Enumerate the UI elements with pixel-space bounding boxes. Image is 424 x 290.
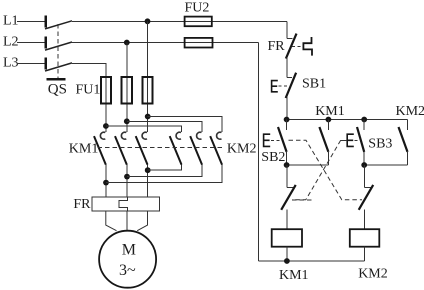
wire joining line SB3/KM2aux (364, 164, 407, 166)
wire L2 bus (72, 42, 259, 44)
pushbutton SB2 blade (278, 127, 287, 152)
wire control phase down (286, 21, 288, 38)
contactor KM1 contact 2 arc (121, 132, 126, 139)
node G junction dot (284, 162, 290, 168)
contact KM2-NC blade (281, 185, 296, 210)
svg-text:KM2: KM2 (358, 267, 388, 282)
wire L1 bus (72, 20, 287, 22)
wire KM2 aux to joining line (407, 152, 409, 165)
node junction L1/FU1 (145, 18, 151, 24)
switch QS pole 3 blade (45, 63, 72, 71)
thermal relay FR heater step divider (119, 197, 128, 211)
svg-text:FR: FR (268, 39, 286, 54)
wire L3 to fuse 1 (72, 63, 106, 132)
contact KM1 aux blade (319, 127, 328, 152)
switch QS pole 3 fixed contact (45, 57, 47, 69)
pushbutton SB2 dashed link (271, 139, 281, 141)
contactor KM1 contact 2 blade (115, 136, 127, 165)
node rail-SB3 junction (361, 117, 367, 123)
switch QS pole 1 blade (45, 21, 72, 29)
svg-text:SB2: SB2 (261, 150, 285, 165)
contactor KM2 contact 3 arc (217, 132, 222, 139)
contact KM1-NC hook (364, 187, 371, 189)
coil KM2 body (350, 229, 380, 247)
node D junction dot (103, 180, 109, 186)
pushbutton SB1 NC hook (287, 76, 292, 78)
node A junction dot (103, 123, 109, 129)
svg-text:FU1: FU1 (76, 82, 101, 97)
wire L3 lead-in (17, 62, 44, 64)
svg-text:KM1: KM1 (69, 142, 99, 157)
contact KM2-NC hook (287, 187, 294, 189)
wire L2 branch down (126, 43, 128, 133)
wire FR to SB1 (286, 58, 288, 78)
contact KM2 aux blade (399, 127, 408, 152)
svg-text:QS: QS (48, 82, 67, 98)
pushbutton SB1 dashed link (279, 85, 289, 87)
wire KM1 contact2 down (126, 165, 128, 197)
node bottom junction dot (284, 258, 290, 264)
svg-text:KM2: KM2 (227, 141, 257, 156)
fuse FU1b body (122, 77, 132, 103)
contactor KM2 contact 2 arc (197, 132, 202, 139)
node rail-KM1aux junction (326, 117, 332, 123)
wire control bottom rail (259, 260, 365, 262)
node junction L2/FU1 (124, 40, 130, 46)
wire joining line SB2/KM1aux (287, 164, 329, 166)
fuse FU1a body (101, 77, 111, 103)
wire motor lead V (126, 211, 128, 231)
interlock dashed SB3 E leadin (341, 139, 348, 141)
pushbutton SB2 upper stub (286, 120, 288, 130)
wire KM2 contact2 to node E (127, 165, 202, 177)
wire KM2-NC to coil KM1 (286, 210, 288, 230)
node H junction dot (361, 162, 367, 168)
wire SB1 to rail (286, 97, 288, 120)
pushbutton SB2 cap E (264, 134, 271, 146)
contactor KM2 contact 3 blade (210, 136, 222, 165)
wire KM1-NC to coil KM2 (363, 210, 365, 230)
thermal relay FR heater box (92, 197, 159, 211)
svg-text:FU2: FU2 (185, 0, 210, 15)
wire coil KM1 to bottom rail (286, 247, 288, 261)
svg-text:L2: L2 (3, 35, 19, 50)
switch QS pole 1 fixed contact (45, 15, 47, 27)
wire node H to KM1-NC (363, 165, 365, 188)
pushbutton SB3 blade (357, 127, 364, 152)
svg-text:SB3: SB3 (368, 137, 392, 152)
fuse FU1c body (142, 77, 152, 103)
relay contact FR actuator bracket (303, 37, 312, 56)
pushbutton SB1 blade (286, 73, 296, 98)
fuse FU2b body (185, 38, 213, 48)
switch QS linkage dashed (57, 24, 59, 78)
pushbutton SB3 upper stub (363, 120, 365, 130)
wire control top rail (287, 119, 408, 121)
svg-text:SB1: SB1 (302, 77, 326, 92)
node E junction dot (124, 174, 130, 180)
wire node C to KM2 contact 3 (148, 117, 222, 133)
wire KM2 contact1 to node F (148, 165, 182, 171)
node C junction dot (145, 114, 151, 120)
node B junction dot (124, 118, 130, 124)
wire SB2 to node G (286, 152, 288, 165)
pushbutton SB3 cap E (347, 134, 354, 146)
contactor KM2 contact 1 arc (176, 132, 181, 139)
wire node G to KM2-NC (286, 165, 288, 188)
svg-text:KM1: KM1 (315, 104, 345, 119)
svg-text:FR: FR (73, 197, 91, 212)
contactor KM1 contact 3 blade (136, 136, 148, 165)
svg-text:L1: L1 (3, 13, 19, 28)
wire SB3 to node H (363, 152, 365, 165)
interlock dashed SB2 to KM1-NC (289, 140, 363, 200)
wire motor lead W (137, 211, 147, 231)
fuse FU2a body (185, 17, 212, 27)
motor M circle (99, 231, 156, 288)
wire L1 branch down (147, 21, 149, 132)
contactor coupling dashed link (98, 147, 225, 149)
coil KM1 body (272, 229, 302, 247)
svg-text:KM2: KM2 (396, 104, 424, 119)
wire control left column (258, 43, 260, 262)
wire node B to KM2 contact 2 (127, 121, 202, 132)
switch QS pole 2 fixed contact (45, 37, 47, 49)
node F junction dot (145, 167, 151, 173)
contactor KM2 contact 1 blade (170, 136, 182, 165)
wire L2 lead-in (17, 42, 44, 44)
contact KM1-NC blade (359, 185, 374, 210)
node rail-SB2 junction (284, 117, 290, 123)
wire KM1 contact3 down (147, 165, 149, 197)
contactor KM1 contact 1 arc (100, 132, 105, 139)
switch QS pole 2 blade (45, 42, 72, 50)
pushbutton SB3 dashed link (355, 139, 360, 141)
wire coil KM2 to bottom rail (363, 247, 365, 261)
interlock dashed KM2-NC horizontal (292, 199, 314, 201)
relay contact FR NC hook (287, 37, 292, 39)
relay contact FR dashed actuator link (292, 45, 303, 47)
switch QS handle bar (47, 78, 66, 80)
contactor KM1 contact 3 arc (142, 132, 147, 139)
contact KM1 aux upper stub (327, 120, 329, 130)
wire KM1 aux to joining line (327, 152, 329, 165)
wire node A to KM2 contact 1 (106, 126, 182, 132)
svg-text:KM1: KM1 (279, 268, 309, 283)
contactor KM1 contact 1 blade (94, 136, 106, 165)
svg-text:M: M (122, 242, 136, 259)
contactor KM2 contact 2 blade (190, 136, 202, 165)
wire motor lead U (106, 211, 117, 231)
interlock dashed SB3 to KM2-NC (292, 140, 341, 200)
svg-text:3~: 3~ (119, 262, 136, 279)
wire KM2 contact3 to node D (106, 165, 222, 183)
svg-text:L3: L3 (3, 56, 19, 71)
relay contact FR NC blade (286, 34, 297, 59)
wire KM1 contact1 down (105, 165, 107, 197)
pushbutton SB1 cap E (272, 81, 278, 92)
contact KM2 aux upper stub (407, 120, 409, 130)
wire L1 lead-in (17, 20, 44, 22)
